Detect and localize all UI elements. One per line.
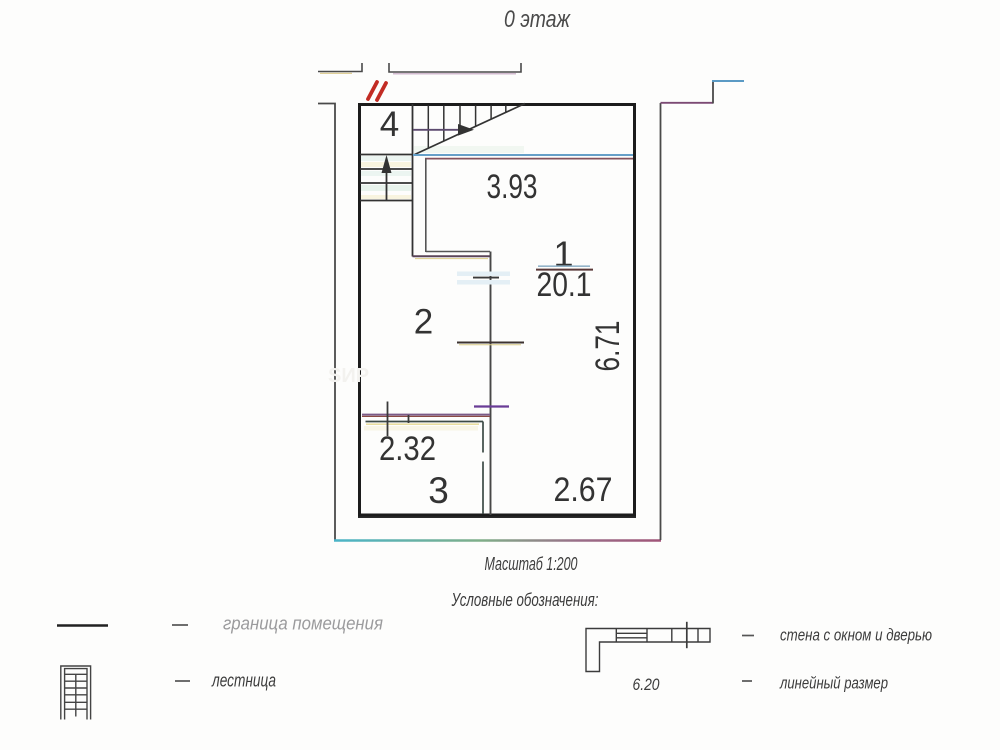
- room3 inner top line: [366, 421, 484, 423]
- dimension bracket B (top-middle): [389, 63, 521, 72]
- svg-text:3.93: 3.93: [487, 168, 538, 206]
- stair direction line with arrow: [413, 124, 474, 136]
- window tick 1: [473, 277, 499, 279]
- svg-text:2.67: 2.67: [554, 471, 613, 509]
- svg-text:Масштаб 1:200: Масштаб 1:200: [485, 554, 578, 574]
- door tick long: [387, 402, 389, 437]
- legend: wall with window and door icon: [586, 622, 710, 672]
- svg-text:линейный размер: линейный размер: [779, 674, 888, 693]
- legend dash 4: [742, 680, 752, 682]
- legend: stair icon: [61, 666, 91, 720]
- boundary line: right vertical: [660, 103, 662, 540]
- corridor bottom wall lower line: [413, 255, 491, 257]
- room3 top wall (purple): [362, 414, 490, 416]
- fraction line above 20.1: [538, 265, 590, 267]
- stair up arrow: [382, 155, 392, 200]
- partition room2/room1 (vertical): [490, 252, 492, 516]
- legend: boundary line sample: [57, 624, 108, 627]
- svg-text:6.20: 6.20: [633, 675, 660, 694]
- dimension bracket A (top-left): [318, 63, 362, 72]
- outer wall of flat (thick): [360, 105, 635, 516]
- svg-text:2.32: 2.32: [379, 430, 436, 468]
- legend dash 2: [175, 680, 190, 682]
- svg-text:лестница: лестница: [211, 671, 276, 691]
- stair tint bands (scan artefact): [361, 146, 524, 199]
- legend dash 3: [742, 635, 754, 637]
- svg-text:4: 4: [380, 105, 399, 144]
- svg-text:0 этаж: 0 этаж: [504, 6, 571, 33]
- stair diagonal: [413, 104, 526, 156]
- stair hatch (upper flight): [428, 106, 519, 149]
- boundary line: left L: [318, 104, 335, 540]
- window tick 2: [457, 342, 524, 344]
- svg-text:20.1: 20.1: [537, 266, 592, 304]
- door tick short: [408, 415, 410, 423]
- svg-text:SИP: SИP: [328, 365, 369, 387]
- boundary line: right step to chimney: [661, 102, 714, 104]
- svg-text:2: 2: [414, 303, 433, 342]
- svg-text:6.71: 6.71: [589, 321, 627, 372]
- svg-text:Условные обозначения:: Условные обозначения:: [451, 590, 599, 610]
- legend dash 1: [172, 624, 188, 626]
- stair well wall (vertical, room 4 right edge): [412, 104, 414, 257]
- svg-text:стена с окном и дверью: стена с окном и дверью: [780, 626, 932, 645]
- svg-text:3: 3: [428, 470, 449, 511]
- boundary line: bottom (colour gradient): [334, 539, 661, 541]
- corridor bottom wall upper line: [426, 251, 490, 253]
- corridor top wall (red line): [425, 158, 633, 160]
- room3 inner right edge (with opening): [482, 422, 484, 453]
- window tick 1 tint bands: [457, 272, 510, 277]
- stair treads (left flight): [360, 155, 412, 201]
- red break mark //: [368, 82, 386, 100]
- svg-text:граница помещения: граница помещения: [223, 614, 383, 634]
- window tick 3 (purple): [474, 405, 509, 407]
- corridor top wall (blue line): [413, 154, 633, 156]
- corridor left wall: [425, 159, 427, 253]
